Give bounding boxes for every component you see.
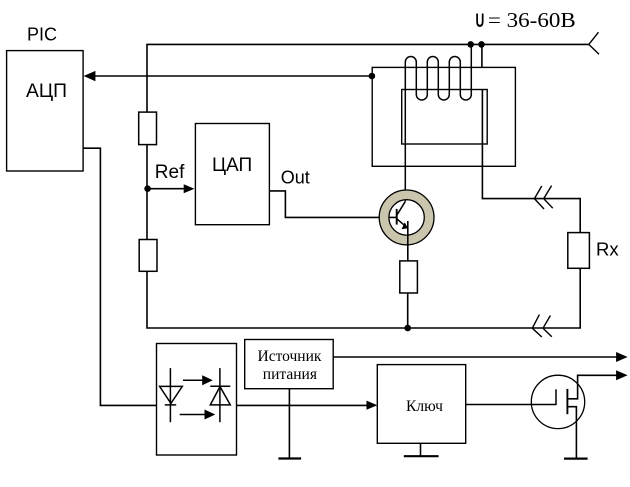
node Ref junction dot bbox=[144, 185, 151, 192]
transformer T1 inner box bbox=[402, 90, 488, 145]
node dot on transformer left edge bbox=[369, 73, 376, 80]
transistor Q2 MOSFET circle bbox=[531, 375, 584, 428]
svg-text:ЦАП: ЦАП bbox=[212, 155, 252, 176]
transistor Q1 ferrite ring fill bbox=[384, 195, 429, 240]
connector fork top right bbox=[589, 32, 599, 54]
wire supply tap to outer box bbox=[481, 44, 483, 67]
svg-text:= 36-60В: = 36-60В bbox=[488, 8, 576, 32]
svg-text:АЦП: АЦП bbox=[26, 81, 67, 102]
diode D2 cathode bar bbox=[210, 385, 230, 387]
driver box Ключ bbox=[377, 365, 465, 444]
light arrow lower bbox=[180, 414, 205, 416]
node dot supply-left bbox=[467, 41, 474, 48]
wire key ground bbox=[420, 443, 422, 456]
gate bar bbox=[555, 389, 557, 405]
svg-text:U: U bbox=[476, 11, 485, 32]
ring inner outline bbox=[389, 200, 424, 235]
ground MOSFET bbox=[564, 458, 588, 460]
svg-text:PIC: PIC bbox=[27, 25, 57, 45]
arrowhead into ADC bbox=[84, 71, 96, 81]
channel bar bbox=[566, 389, 568, 414]
optocoupler U3 box bbox=[157, 344, 237, 456]
arrowhead supply rail bbox=[616, 352, 628, 362]
wire ADC feedback input from transformer bbox=[95, 75, 372, 77]
wire supply ground bbox=[288, 389, 290, 459]
svg-text:Источник: Источник bbox=[258, 348, 322, 365]
wire R1 to R2 bbox=[146, 145, 148, 240]
diode D2 (up) bbox=[210, 387, 230, 405]
wire DAC Out to transistor base bbox=[269, 191, 396, 218]
svg-text:Rx: Rx bbox=[596, 239, 619, 260]
wire drain to output bbox=[567, 375, 616, 399]
power supply box Источник питания bbox=[245, 340, 334, 389]
wire top supply rail from divider to connector bbox=[147, 44, 589, 112]
wire R3 to bottom rail bbox=[407, 293, 409, 328]
svg-text:питания: питания bbox=[263, 366, 317, 383]
arrowhead drain output bbox=[616, 370, 628, 380]
diode D1 lead bbox=[169, 368, 171, 422]
ground supply bbox=[278, 457, 301, 459]
diode D1 cathode bar bbox=[165, 404, 176, 406]
wire emitter to R3 bbox=[407, 221, 409, 261]
wire ADC port to optocoupler bbox=[83, 148, 156, 405]
light arrow upper bbox=[183, 379, 203, 381]
node emitter-rail junction dot bbox=[404, 325, 411, 332]
inductor L1 primary winding and collector lead bbox=[405, 44, 471, 201]
arrowhead into key bbox=[367, 401, 378, 410]
collector stroke bbox=[397, 201, 406, 215]
IC U2 DAC box bbox=[195, 124, 269, 225]
transformer T1 outer box bbox=[372, 67, 515, 166]
wire Ref to DAC bbox=[148, 188, 185, 190]
connector chevron on secondary wire bbox=[534, 186, 552, 209]
resistor R2 (lower divider) bbox=[139, 240, 157, 272]
IC U1 PIC ADC box bbox=[7, 51, 84, 171]
wire supply output rail bbox=[333, 356, 616, 358]
wire secondary output bbox=[482, 90, 580, 233]
emitter stroke bbox=[397, 219, 407, 228]
ground key bbox=[404, 455, 439, 457]
wire bottom rail bbox=[147, 268, 580, 328]
resistor R3 emitter resistor bbox=[400, 261, 418, 293]
diode D2 lead bbox=[219, 368, 221, 422]
node dot supply-right bbox=[478, 41, 485, 48]
resistor Rx bbox=[568, 233, 590, 269]
emitter arrowhead bbox=[402, 222, 408, 229]
transistor Q1 base bar bbox=[396, 209, 398, 225]
wire source to ground bbox=[567, 407, 576, 459]
arrowhead into DAC bbox=[184, 184, 195, 193]
connector chevron on bottom rail bbox=[532, 315, 552, 337]
diode D1 (down) bbox=[160, 386, 183, 403]
wire optocoupler to key bbox=[237, 404, 369, 406]
svg-text:Ref: Ref bbox=[155, 162, 185, 183]
resistor R1 (upper divider) bbox=[139, 112, 157, 145]
svg-text:Ключ: Ключ bbox=[406, 398, 443, 415]
svg-text:Out: Out bbox=[281, 168, 310, 188]
wire key to MOSFET gate bbox=[466, 404, 556, 406]
ring outer outline bbox=[379, 190, 434, 245]
